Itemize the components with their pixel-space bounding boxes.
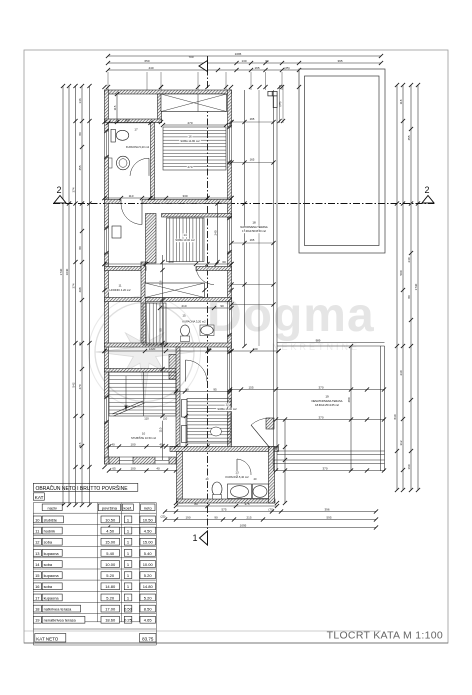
dim row 160 in bath 17 bbox=[109, 122, 151, 124]
svg-text:80: 80 bbox=[78, 132, 82, 136]
svg-text:19: 19 bbox=[325, 395, 329, 399]
east wall window 2 bbox=[227, 218, 229, 252]
svg-text:155: 155 bbox=[248, 385, 253, 389]
svg-text:15: 15 bbox=[35, 573, 40, 578]
svg-text:165: 165 bbox=[250, 158, 255, 162]
east exterior wall segment 3 bbox=[228, 252, 232, 300]
svg-text:(25): (25) bbox=[278, 101, 282, 106]
svg-text:374: 374 bbox=[72, 283, 76, 288]
door soba14 opening bbox=[196, 267, 214, 285]
chimney pier bbox=[169, 355, 178, 380]
east exterior wall segment 4 bbox=[228, 335, 232, 352]
east exterior wall segment 1 bbox=[228, 90, 232, 127]
svg-text:370: 370 bbox=[322, 466, 327, 470]
staircase break line bbox=[112, 401, 143, 414]
corner tick clusters bbox=[102, 196, 106, 200]
svg-text:soba: soba bbox=[44, 540, 53, 545]
svg-text:SOBA 15.00 m2: SOBA 15.00 m2 bbox=[217, 407, 237, 411]
svg-text:595: 595 bbox=[326, 515, 331, 519]
room 15 label bbox=[182, 314, 187, 318]
terrace dim row y389 bbox=[230, 389, 384, 391]
svg-text:NENATKRIVENA TERASA: NENATKRIVENA TERASA bbox=[312, 399, 343, 403]
toilet bath 17 bbox=[111, 129, 115, 142]
svg-text:90: 90 bbox=[185, 387, 189, 391]
svg-text:395: 395 bbox=[337, 59, 342, 63]
room 10 label bbox=[141, 432, 146, 436]
svg-text:110: 110 bbox=[163, 417, 168, 421]
svg-text:5.20: 5.20 bbox=[144, 595, 153, 600]
east pier at terrace door bbox=[266, 418, 274, 429]
svg-text:116: 116 bbox=[159, 280, 163, 285]
svg-text:130: 130 bbox=[252, 347, 257, 351]
bottom dimension row 1095 bbox=[108, 527, 376, 529]
svg-text:18.60x0.25=4.65 m2: 18.60x0.25=4.65 m2 bbox=[315, 403, 339, 407]
window jamb ticks east wall bbox=[227, 125, 231, 129]
svg-text:575: 575 bbox=[221, 507, 226, 511]
svg-text:naziv: naziv bbox=[48, 505, 57, 510]
svg-text:5.40: 5.40 bbox=[106, 551, 115, 556]
svg-text:KAT NETO: KAT NETO bbox=[36, 636, 59, 641]
svg-text:989: 989 bbox=[316, 339, 321, 343]
bottom dimension row b bbox=[165, 519, 376, 521]
svg-text:312: 312 bbox=[399, 440, 403, 445]
wall above room 14 bed bbox=[162, 214, 232, 218]
svg-text:60: 60 bbox=[222, 260, 226, 264]
section line 1 (vertical dash-dot) bbox=[207, 56, 209, 545]
west exterior wall segment 3 bbox=[105, 253, 109, 397]
svg-text:1730: 1730 bbox=[414, 283, 418, 290]
svg-text:12: 12 bbox=[225, 403, 229, 407]
svg-text:KUPAONA 5,40 m2: KUPAONA 5,40 m2 bbox=[225, 475, 249, 479]
svg-text:kupaona: kupaona bbox=[44, 573, 60, 578]
table row 12 soba bbox=[33, 538, 41, 545]
svg-text:500: 500 bbox=[399, 270, 403, 275]
svg-text:18: 18 bbox=[35, 607, 40, 612]
east exterior wall segment 2 bbox=[228, 162, 232, 218]
svg-text:200: 200 bbox=[168, 260, 173, 264]
nightstand 1 bbox=[182, 400, 188, 418]
svg-text:240: 240 bbox=[214, 230, 218, 235]
svg-text:5.20: 5.20 bbox=[144, 573, 153, 578]
svg-text:210: 210 bbox=[181, 304, 186, 308]
interior dim row y391 bbox=[176, 391, 230, 393]
svg-text:14: 14 bbox=[35, 562, 40, 567]
svg-text:KUPAONA 5,20 m2: KUPAONA 5,20 m2 bbox=[126, 145, 150, 149]
interior wall bath17 right bbox=[151, 123, 155, 200]
door bath17 to hodnik bbox=[121, 204, 142, 225]
west exterior wall segment 4 bbox=[105, 422, 109, 464]
svg-text:455: 455 bbox=[78, 165, 82, 170]
svg-text:NATKRIVENA TERASA: NATKRIVENA TERASA bbox=[240, 225, 268, 229]
svg-text:16: 16 bbox=[188, 135, 192, 139]
section line 2 (horizontal dash-dot) bbox=[53, 203, 434, 205]
interior wall top closet vertical bbox=[158, 94, 162, 123]
interior dim col x186 stairs bbox=[185, 416, 187, 446]
svg-text:(70): (70) bbox=[268, 507, 273, 511]
svg-text:kupaona: kupaona bbox=[44, 595, 60, 600]
west wall window 2 bbox=[104, 228, 106, 253]
svg-text:14.80: 14.80 bbox=[105, 584, 116, 589]
dim row above bath 15 bbox=[160, 307, 232, 309]
pool inner outline bbox=[305, 76, 380, 246]
svg-text:kupaona: kupaona bbox=[44, 551, 60, 556]
svg-text:65: 65 bbox=[112, 466, 116, 470]
stair top wall bbox=[105, 369, 177, 373]
north exterior wall bbox=[105, 90, 232, 94]
table row 18 natkrivea terasa bbox=[33, 605, 41, 612]
terrace tie lines bbox=[232, 121, 274, 123]
svg-text:10.50: 10.50 bbox=[143, 517, 154, 522]
connector stubs top bbox=[107, 72, 109, 90]
svg-text:270: 270 bbox=[187, 121, 192, 125]
table row 14 soba bbox=[33, 561, 41, 568]
dim stubs between house and pool bbox=[279, 85, 281, 123]
svg-text:700: 700 bbox=[188, 55, 193, 59]
bottom wing west wall bbox=[177, 452, 183, 504]
svg-text:542: 542 bbox=[72, 382, 76, 387]
svg-text:240: 240 bbox=[407, 257, 411, 262]
hodnik radiator bbox=[112, 226, 121, 238]
svg-text:Dogma: Dogma bbox=[207, 289, 375, 342]
svg-text:17: 17 bbox=[35, 595, 40, 600]
stair void with X (middle) bbox=[145, 283, 205, 298]
svg-text:230: 230 bbox=[399, 370, 403, 375]
table row 17 kupaona bbox=[33, 594, 41, 601]
pillow bbox=[211, 427, 222, 436]
table row 10 stubište bbox=[33, 516, 41, 523]
svg-text:16: 16 bbox=[35, 584, 40, 589]
svg-text:0.25: 0.25 bbox=[124, 618, 133, 623]
room 17 label bbox=[134, 128, 139, 132]
svg-text:190: 190 bbox=[185, 515, 190, 519]
svg-text:375: 375 bbox=[244, 502, 249, 506]
svg-text:13: 13 bbox=[35, 551, 40, 556]
interior dim col x217 bbox=[217, 204, 219, 263]
canopy edge line bbox=[258, 90, 260, 346]
svg-text:5.20: 5.20 bbox=[106, 595, 115, 600]
left dimension columns bbox=[62, 86, 64, 505]
table row 15 kupaona bbox=[33, 572, 41, 579]
svg-text:374: 374 bbox=[72, 187, 76, 192]
svg-text:17.00: 17.00 bbox=[105, 607, 116, 612]
svg-text:1040: 1040 bbox=[65, 268, 69, 275]
svg-text:118: 118 bbox=[399, 99, 403, 104]
east wall lower window bbox=[227, 352, 229, 390]
interior dim col x117 bbox=[116, 94, 118, 122]
svg-text:površina: površina bbox=[102, 505, 118, 510]
svg-text:NEKRETNINE: NEKRETNINE bbox=[272, 342, 360, 352]
svg-text:14.80: 14.80 bbox=[143, 584, 154, 589]
door to terrace (diagonal leaf) bbox=[251, 425, 270, 448]
table row 16 soba bbox=[33, 583, 41, 590]
room 11 label bbox=[118, 284, 123, 288]
svg-text:100: 100 bbox=[130, 442, 135, 446]
svg-text:neto: neto bbox=[144, 505, 153, 510]
interior dim col x162 bbox=[162, 255, 164, 460]
svg-text:370: 370 bbox=[318, 415, 323, 419]
svg-text:KAT: KAT bbox=[35, 495, 44, 500]
svg-text:10.50: 10.50 bbox=[105, 517, 116, 522]
interior wall stair side block bbox=[146, 214, 157, 264]
svg-text:165: 165 bbox=[250, 238, 255, 242]
svg-text:1095: 1095 bbox=[240, 523, 247, 527]
svg-text:HODNIK 4.20 m2: HODNIK 4.20 m2 bbox=[110, 288, 131, 292]
svg-text:soba: soba bbox=[44, 562, 53, 567]
table row 11 hodnik bbox=[33, 527, 41, 534]
top dimension row 2 bbox=[108, 62, 381, 64]
bottom wing east wall bbox=[269, 447, 275, 504]
svg-text:15.00: 15.00 bbox=[105, 540, 116, 545]
svg-text:80: 80 bbox=[407, 295, 411, 299]
svg-text:115: 115 bbox=[78, 442, 82, 447]
south terrace inner lines bbox=[277, 450, 385, 452]
west wall window 1 bbox=[104, 131, 106, 157]
area table bbox=[33, 483, 138, 491]
svg-text:5.20: 5.20 bbox=[106, 573, 115, 578]
wall y=447 bbox=[170, 447, 279, 452]
svg-text:17: 17 bbox=[134, 128, 138, 132]
interior dim row y269 bbox=[105, 263, 232, 265]
dim row under south wall bbox=[176, 505, 277, 507]
svg-text:115: 115 bbox=[113, 105, 117, 110]
svg-text:830: 830 bbox=[393, 414, 397, 419]
svg-text:(25): (25) bbox=[284, 66, 289, 70]
svg-text:1: 1 bbox=[192, 533, 197, 543]
east wall window 3 bbox=[227, 300, 229, 335]
svg-text:14: 14 bbox=[183, 233, 187, 237]
terrace dim col mid bbox=[350, 346, 352, 471]
svg-text:396: 396 bbox=[324, 507, 329, 511]
natkrivena terasa label bbox=[252, 221, 257, 225]
svg-text:17.00x0.50=8.50 m2: 17.00x0.50=8.50 m2 bbox=[242, 229, 266, 233]
svg-text:60: 60 bbox=[265, 59, 269, 63]
svg-text:146: 146 bbox=[78, 98, 82, 103]
table row 19 nenatkrivea terasa bbox=[33, 616, 41, 623]
terrace dim row y419 bbox=[276, 419, 384, 421]
stair void with X (top) bbox=[161, 94, 227, 112]
svg-text:12: 12 bbox=[35, 540, 40, 545]
double sink bath 13 bbox=[228, 484, 252, 499]
stair flight (down) near bath 15 bbox=[143, 303, 166, 345]
section 1 bottom marker bbox=[200, 531, 208, 545]
interior dim row stair wing bbox=[109, 446, 176, 448]
svg-text:215: 215 bbox=[246, 515, 251, 519]
svg-text:11: 11 bbox=[118, 284, 121, 288]
stair wing south wall bbox=[105, 457, 110, 464]
bed room 14 (vertical hatch) bbox=[167, 218, 205, 262]
svg-text:650: 650 bbox=[144, 59, 149, 63]
terrace east edge double line bbox=[273, 90, 275, 471]
svg-text:270: 270 bbox=[187, 165, 192, 169]
staircase arrow bbox=[125, 376, 127, 410]
svg-text:90: 90 bbox=[220, 304, 224, 308]
svg-text:natkrivea terasa: natkrivea terasa bbox=[44, 607, 73, 612]
svg-text:1220: 1220 bbox=[149, 347, 156, 351]
stair/soba divider bbox=[176, 347, 180, 447]
svg-text:10: 10 bbox=[142, 432, 146, 436]
svg-text:TLOCRT KATA M 1:100: TLOCRT KATA M 1:100 bbox=[327, 630, 443, 642]
svg-text:83.75: 83.75 bbox=[142, 636, 154, 641]
svg-text:80: 80 bbox=[78, 246, 82, 250]
svg-text:165: 165 bbox=[254, 66, 259, 70]
section 1 top marker bbox=[199, 61, 208, 72]
right dimension columns bbox=[396, 85, 398, 490]
svg-text:5.40: 5.40 bbox=[144, 551, 153, 556]
terrace dim row y470 bbox=[276, 470, 384, 472]
svg-text:95: 95 bbox=[213, 387, 217, 391]
interior wall mid (y=267) bbox=[105, 267, 147, 271]
svg-text:130: 130 bbox=[241, 59, 246, 63]
svg-text:soba: soba bbox=[44, 584, 53, 589]
ticks on top wall line bbox=[102, 85, 106, 89]
sink bath 15 bbox=[200, 325, 214, 336]
svg-text:18: 18 bbox=[252, 221, 256, 225]
interior wall bath15 north bbox=[105, 298, 232, 302]
interior wall y=343 bbox=[105, 343, 232, 347]
south exterior wall bbox=[177, 499, 276, 503]
west wall window 3 bbox=[104, 397, 106, 422]
door bath 13 bbox=[237, 459, 251, 475]
svg-text:480: 480 bbox=[347, 397, 351, 402]
drawing sheet frame bbox=[24, 50, 448, 643]
svg-text:4.65: 4.65 bbox=[144, 618, 153, 623]
svg-text:80: 80 bbox=[78, 342, 82, 346]
room 13 label bbox=[235, 471, 240, 475]
bottom dimension row a bbox=[165, 511, 376, 513]
svg-text:2: 2 bbox=[424, 185, 429, 195]
svg-text:160: 160 bbox=[407, 464, 411, 469]
stair wing bottom dim row bbox=[109, 470, 176, 472]
svg-text:455: 455 bbox=[407, 135, 411, 140]
svg-text:10.00: 10.00 bbox=[143, 562, 154, 567]
svg-text:1730: 1730 bbox=[59, 268, 63, 275]
section 2 right marker bbox=[422, 196, 434, 204]
south terrace north edge bbox=[277, 342, 385, 344]
terrace dim line vertical bbox=[244, 90, 246, 346]
svg-text:OBRAČUN NETO I BRUTTO POVRŠINE: OBRAČUN NETO I BRUTTO POVRŠINE bbox=[36, 485, 129, 492]
svg-text:15.00: 15.00 bbox=[143, 540, 154, 545]
svg-text:110: 110 bbox=[159, 427, 163, 432]
dim col east of bottom wing bbox=[284, 420, 286, 504]
svg-text:hodnik: hodnik bbox=[44, 528, 56, 533]
svg-text:80: 80 bbox=[159, 328, 163, 332]
svg-text:110: 110 bbox=[144, 417, 149, 421]
svg-text:18.60: 18.60 bbox=[105, 618, 116, 623]
toilet bath 15 bbox=[181, 325, 190, 336]
svg-text:10: 10 bbox=[35, 517, 40, 522]
svg-text:0.50: 0.50 bbox=[124, 607, 133, 612]
svg-text:2: 2 bbox=[56, 185, 61, 195]
svg-text:440: 440 bbox=[148, 66, 153, 70]
door bath 17 bbox=[148, 158, 150, 176]
svg-text:13: 13 bbox=[235, 471, 239, 475]
svg-text:40: 40 bbox=[111, 442, 115, 446]
svg-text:4.50: 4.50 bbox=[106, 528, 115, 533]
table total row bbox=[33, 628, 156, 630]
svg-text:10.00: 10.00 bbox=[105, 562, 116, 567]
west exterior wall segment 2 bbox=[105, 157, 109, 228]
table row 13 kupaona bbox=[33, 549, 41, 556]
top dimension row 1095 bbox=[108, 55, 381, 57]
svg-text:40: 40 bbox=[156, 466, 160, 470]
interior wall hodnik east bbox=[141, 262, 146, 343]
watermark logo compass star bbox=[95, 303, 194, 402]
nenatkrivena terasa label bbox=[325, 395, 330, 399]
svg-text:110: 110 bbox=[129, 194, 134, 198]
svg-text:4.50: 4.50 bbox=[144, 528, 153, 533]
svg-text:1095: 1095 bbox=[235, 52, 242, 56]
south terrace east edge bbox=[380, 346, 382, 471]
svg-text:nenatkrivea terasa: nenatkrivea terasa bbox=[44, 618, 77, 623]
east wall window 1 bbox=[227, 127, 229, 162]
bed room 16 (hatched) bbox=[163, 127, 226, 170]
top dimension row 3 bbox=[108, 69, 299, 71]
svg-text:SOBA 10.00 m2: SOBA 10.00 m2 bbox=[175, 238, 195, 242]
svg-text:8.50: 8.50 bbox=[144, 607, 153, 612]
door soba 12 bbox=[186, 360, 208, 382]
interior wall hodnik north (y=200) bbox=[105, 200, 122, 204]
svg-text:90: 90 bbox=[214, 515, 218, 519]
svg-text:100: 100 bbox=[130, 466, 135, 470]
west exterior wall segment 1 bbox=[105, 90, 109, 131]
main staircase treads bbox=[109, 372, 176, 416]
svg-text:165: 165 bbox=[250, 117, 255, 121]
svg-text:470: 470 bbox=[78, 384, 82, 389]
section 2 left marker bbox=[54, 196, 66, 204]
interior dim row y199 bbox=[105, 197, 232, 199]
svg-text:330: 330 bbox=[182, 194, 187, 198]
interior dim row y352 bbox=[105, 350, 279, 352]
top-right corner pillar detail bbox=[268, 91, 272, 96]
svg-text:15: 15 bbox=[182, 314, 186, 318]
nightstand 2 bbox=[182, 426, 188, 443]
svg-text:370: 370 bbox=[318, 385, 323, 389]
svg-text:19: 19 bbox=[35, 618, 40, 623]
svg-text:koef.: koef. bbox=[123, 505, 132, 510]
window jamb ticks west wall bbox=[104, 129, 108, 133]
toilet bath 13 bbox=[212, 482, 222, 496]
svg-text:SOBA 14.80 m2: SOBA 14.80 m2 bbox=[180, 139, 200, 143]
svg-text:(25): (25) bbox=[161, 515, 166, 519]
svg-text:KUPAONA 3,20 m2: KUPAONA 3,20 m2 bbox=[182, 320, 206, 324]
svg-text:160: 160 bbox=[124, 119, 129, 123]
sink bath 17 bbox=[117, 156, 130, 170]
svg-text:80: 80 bbox=[194, 502, 198, 506]
svg-text:498: 498 bbox=[78, 287, 82, 292]
bed room 12 (hatched) bbox=[187, 399, 231, 444]
east exterior wall segment 5 bbox=[228, 390, 232, 451]
svg-text:stubište: stubište bbox=[44, 517, 57, 522]
interior wall top closet horizontal bbox=[105, 119, 162, 123]
pool outer outline bbox=[299, 69, 385, 253]
